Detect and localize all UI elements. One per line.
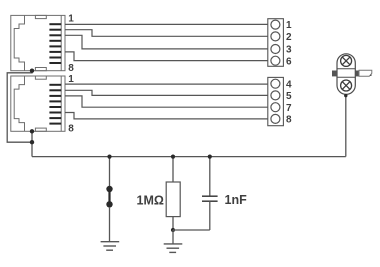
screw top xyxy=(341,55,352,66)
RJ45 jack J1 (top) xyxy=(11,15,65,70)
terminal block X2 xyxy=(268,77,284,125)
wires J1 to terminal block X1 xyxy=(65,24,268,60)
bottom wire resistor to capacitor xyxy=(173,229,210,231)
X2 terminal 7 xyxy=(271,103,280,112)
J1 pins 1-8 (contact bars) xyxy=(49,23,61,64)
wires J2 to terminal block X2 xyxy=(65,84,268,119)
X1 terminal 6 xyxy=(271,56,280,65)
wire J1 pin3 to terminal 3 xyxy=(65,35,268,49)
svg-text:4: 4 xyxy=(286,79,292,90)
wire J2 pin1 to terminal 4 xyxy=(65,83,268,85)
foot body (stadium) xyxy=(337,54,355,95)
svg-text:8: 8 xyxy=(68,63,74,74)
resistor bottom wire xyxy=(172,217,174,230)
clamp band lines xyxy=(337,68,355,70)
junction dot bus/GDT xyxy=(107,155,111,159)
capacitor C 1nF plates xyxy=(202,196,218,201)
X2 terminal 8 xyxy=(271,114,280,123)
wire J2 pin2 to terminal 5 xyxy=(65,90,268,95)
X1 terminal 2 xyxy=(271,32,280,41)
X2 terminal 5 xyxy=(271,91,280,100)
junction dot resistor/cap bottom xyxy=(171,228,175,232)
wire J2 pin6 to terminal 8 xyxy=(65,113,268,119)
ground bus wire xyxy=(32,156,346,158)
resistor R 1MOhm xyxy=(166,182,180,217)
grounding foot (snap-on earthing element) xyxy=(332,54,372,98)
X2 terminal 4 xyxy=(271,79,280,88)
X1 terminal 1 xyxy=(271,20,280,29)
foot wire dot xyxy=(344,94,347,97)
screw bottom xyxy=(341,80,352,91)
svg-text:1: 1 xyxy=(286,20,292,31)
wire GDT to ground xyxy=(109,207,111,242)
clamp nib xyxy=(359,70,372,76)
ground symbol G1 xyxy=(101,242,120,251)
terminal block X1 xyxy=(268,19,284,67)
junction dot bus/capacitor xyxy=(208,155,212,159)
J2 pins 1-8 (contact bars) xyxy=(49,84,61,125)
gas discharge tube (spark gap) xyxy=(106,186,112,208)
svg-text:1nF: 1nF xyxy=(225,193,248,207)
RJ45 jack J2 (bottom) xyxy=(11,76,65,131)
svg-text:1: 1 xyxy=(68,14,74,25)
shield wire from J2 bottom down to bus xyxy=(31,131,33,156)
svg-text:2: 2 xyxy=(286,32,292,43)
capacitor bottom wire xyxy=(209,201,211,230)
capacitor branch wire (top) xyxy=(209,157,211,197)
svg-text:8: 8 xyxy=(286,115,292,126)
junction dot left shield node xyxy=(30,140,34,144)
svg-text:6: 6 xyxy=(286,56,292,67)
svg-text:1MΩ: 1MΩ xyxy=(137,194,164,208)
resistor branch wire (top) xyxy=(172,157,174,182)
gas discharge tube branch wire xyxy=(109,157,111,186)
wire J1 pin6 to terminal 6 xyxy=(65,52,268,61)
svg-text:5: 5 xyxy=(286,91,292,102)
clamp right tab xyxy=(355,71,359,77)
junction dot on J1 bottom xyxy=(30,69,34,73)
junction dot on J2 bottom xyxy=(30,129,34,133)
wire bus to grounding foot xyxy=(345,94,347,156)
shield wire from J1 down the left side xyxy=(7,71,32,143)
junction dot bus/resistor xyxy=(171,155,175,159)
ground symbol G2 xyxy=(172,230,174,244)
wire J1 pin1 to terminal 1 xyxy=(65,23,268,25)
wire J2 pin3 to terminal 7 xyxy=(65,96,268,107)
svg-text:3: 3 xyxy=(286,45,292,56)
svg-text:7: 7 xyxy=(286,103,292,114)
wire J1 pin2 to terminal 2 xyxy=(65,30,268,37)
clamp left tab xyxy=(332,71,337,77)
X1 terminal 3 xyxy=(271,45,280,54)
svg-text:8: 8 xyxy=(68,124,74,135)
